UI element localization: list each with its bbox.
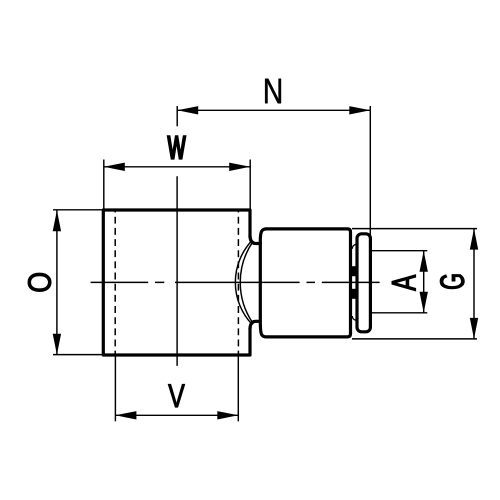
- dimension W right arrow: [229, 163, 250, 171]
- elbow body block outline: [103, 210, 250, 355]
- dimension O top extension line: [53, 209, 103, 211]
- horizontal centerline: [91, 281, 380, 283]
- label W: [168, 136, 186, 159]
- dimension N right extension line: [369, 106, 371, 236]
- label A: [392, 275, 416, 291]
- body-to-cartridge neck fillet top: [250, 236, 260, 244]
- dimension W left arrow: [104, 163, 125, 171]
- collar notch lower: [352, 316, 356, 320]
- vertical centerline: [176, 176, 178, 366]
- dimension G top arrow: [470, 229, 478, 250]
- dimension W right extension line: [249, 160, 251, 211]
- dimension V left arrow: [115, 411, 136, 419]
- collar notch upper: [352, 244, 356, 248]
- dimension A bottom extension line: [371, 312, 427, 314]
- dimension A bottom arrow: [420, 292, 428, 313]
- dimension G top extension line: [352, 228, 477, 230]
- dimension W line: [104, 166, 250, 168]
- dimension V left extension line: [114, 355, 116, 421]
- dimension N left arrow: [177, 106, 198, 114]
- body-to-cartridge neck fillet bottom: [250, 321, 260, 329]
- label V: [168, 384, 185, 407]
- collar clip lower: [351, 289, 358, 299]
- dimension O bottom extension line: [53, 354, 103, 356]
- hidden bore dashed line left: [114, 211, 116, 354]
- label N: [265, 79, 281, 104]
- dimension O bottom arrow: [53, 334, 61, 355]
- label O: [28, 273, 51, 291]
- dimension A line: [423, 251, 425, 313]
- dimension N left tick: [176, 106, 178, 126]
- collar clip upper: [351, 266, 358, 276]
- dimension G bottom arrow: [470, 318, 478, 339]
- dimension W left extension line: [103, 160, 105, 211]
- dimension N line: [177, 109, 370, 111]
- release collar outline: [357, 234, 370, 332]
- swivel ball inner arc: [240, 242, 253, 323]
- hidden bore dashed line right: [237, 211, 239, 354]
- dimension G line: [473, 229, 475, 339]
- cartridge cylinder outline: [260, 229, 350, 337]
- dimension O top arrow: [53, 210, 61, 231]
- swivel ball outer arc: [235, 241, 252, 325]
- dimension N right arrow: [349, 106, 370, 114]
- dimension O line: [56, 210, 58, 354]
- label G: [440, 275, 464, 289]
- dimension G bottom extension line: [352, 338, 477, 340]
- dimension A top arrow: [420, 251, 428, 272]
- dimension A top extension line: [371, 250, 427, 252]
- dimension V line: [115, 414, 238, 416]
- dimension V right extension line: [237, 355, 239, 421]
- dimension V right arrow: [217, 411, 238, 419]
